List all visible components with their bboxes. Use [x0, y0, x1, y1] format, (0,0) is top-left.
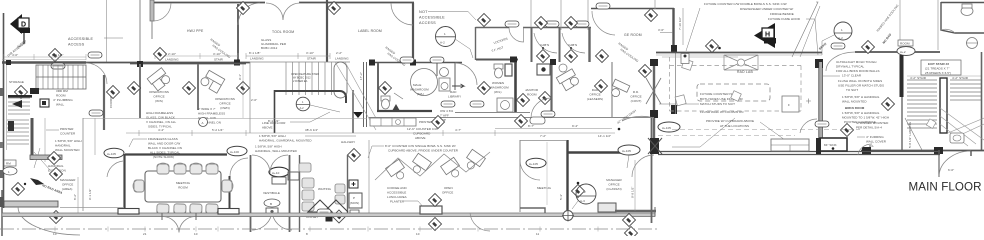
- bench counter on south wall: [771, 139, 809, 151]
- wall: cab row top: [476, 27, 510, 29]
- svg-text:ACCESS: ACCESS: [419, 21, 436, 25]
- svg-text:1 5/8"W, 5/8" H HANDRAIL: 1 5/8"W, 5/8" H HANDRAIL: [842, 95, 880, 99]
- diamond cab bottom2: [564, 49, 577, 62]
- door arc: cab2: [534, 33, 557, 53]
- room tag sw: [3, 160, 17, 175]
- section circle A-2 right: [834, 22, 852, 40]
- svg-text:LUNCH AREA: LUNCH AREA: [387, 195, 407, 199]
- wall: rad offices divider x612: [611, 62, 613, 118]
- tick t6: [309, 227, 311, 232]
- leader diagonal rad wing: [672, 118, 735, 147]
- svg-text:WALL COVER: WALL COVER: [866, 140, 887, 144]
- closet pill: [317, 209, 331, 215]
- svg-text:HANDRAIL, WALL MOUNTED: HANDRAIL, WALL MOUNTED: [255, 149, 298, 153]
- svg-text:(21 TREADS X 7": (21 TREADS X 7": [925, 67, 949, 71]
- wall: cab divider 3 / GE west: [588, 27, 590, 62]
- leader furring: [857, 136, 865, 138]
- diamond closet: [332, 210, 345, 223]
- diamond rd office: [638, 64, 651, 77]
- diamond cab2: [564, 16, 577, 29]
- svg-text:OFFICE: OFFICE: [62, 183, 73, 187]
- diamond leasers: [594, 79, 607, 92]
- svg-text:1: 1: [841, 28, 843, 32]
- svg-text:4'-7": 4'-7": [455, 128, 461, 132]
- leader frameless: [129, 139, 147, 147]
- dim line tool room: [246, 55, 330, 57]
- small tilted box furniture 1: [682, 59, 693, 70]
- door arc south open office: [470, 213, 490, 231]
- svg-text:A-2: A-2: [440, 41, 445, 45]
- leader from A-2 circle: [455, 39, 473, 58]
- svg-text:9'-9 1/2": 9'-9 1/2": [631, 187, 635, 198]
- door arc corridor top: [86, 63, 107, 84]
- wall: rad lab north inner: [656, 54, 822, 56]
- door arc meeting east: [230, 158, 248, 176]
- open office desk4: [462, 149, 485, 173]
- svg-text:(M/L): (M/L): [417, 92, 424, 96]
- wall: x95 vertical thin: [94, 118, 96, 155]
- black sq ops top: [137, 61, 143, 67]
- svg-text:4'-0": 4'-0": [12, 53, 18, 57]
- svg-text:D: D: [21, 22, 26, 29]
- vestibule box dot: [271, 210, 274, 213]
- door arc tool room west: [238, 3, 260, 25]
- door arc junction sw: [632, 155, 654, 177]
- tick t11: [597, 227, 599, 232]
- svg-text:STORAGE: STORAGE: [9, 80, 24, 84]
- washroom top line: [941, 2, 984, 4]
- diamond top right of hwd: [236, 1, 249, 14]
- stair upper rail: [36, 76, 86, 78]
- dim vertical x635: [634, 160, 636, 211]
- wall: west stair lower treads: [7, 120, 29, 144]
- open office west boundary: [368, 140, 370, 213]
- svg-text:8: 8: [306, 232, 308, 236]
- svg-text:TO SUIT: TO SUIT: [846, 88, 858, 92]
- svg-text:ROOM: ROOM: [527, 93, 537, 97]
- svg-text:GLASS, C/W BLACK: GLASS, C/W BLACK: [146, 116, 175, 120]
- equipment box column: plus box: [349, 180, 358, 188]
- dim strip hwd pipe: [155, 52, 238, 62]
- washroom door arc: [941, 29, 955, 33]
- room below stair: west wall: [274, 90, 276, 133]
- diamond corridor: [106, 85, 119, 98]
- svg-text:FUTURE FUME HOOD: FUTURE FUME HOOD: [768, 17, 801, 21]
- door arc janitor: [531, 98, 551, 118]
- svg-text:5'-2 1/4": 5'-2 1/4": [212, 128, 223, 132]
- svg-text:OFFICE: OFFICE: [442, 191, 453, 195]
- svg-text:WALL MOUNTED: WALL MOUNTED: [842, 100, 867, 104]
- flag marker D: box: [18, 18, 29, 28]
- diamond right of A-2: [477, 13, 490, 26]
- svg-text:10: 10: [416, 232, 420, 236]
- corridor south wall y112 segment1: [455, 112, 530, 114]
- male wr turning circle: [411, 69, 438, 96]
- leader line of floor: [290, 112, 330, 122]
- svg-text:OFFICE: OFFICE: [630, 95, 641, 99]
- svg-text:V CHANNEL, ON ALL: V CHANNEL, ON ALL: [146, 120, 176, 124]
- diamond sw2: [49, 167, 62, 180]
- svg-text:ACCESSIBLE: ACCESSIBLE: [387, 191, 406, 195]
- rad wing south wall band: [658, 151, 940, 153]
- svg-text:(MON): (MON): [350, 201, 359, 205]
- door leaf: hwd pipe: [151, 21, 153, 39]
- hallway north thin line: [83, 118, 367, 120]
- svg-text:(OWN): (OWN): [220, 106, 230, 110]
- printer counter north: counter rect: [370, 118, 416, 126]
- sink top right: [966, 38, 978, 49]
- chair top1: [157, 163, 169, 174]
- wall: stair west dark bar: [900, 55, 904, 97]
- marker circle in counter: [441, 83, 448, 90]
- dark blob manager: [30, 178, 44, 185]
- wall: west exterior: [3, 13, 5, 208]
- diamond y122 east: [514, 114, 527, 127]
- pill A-10 hall: [269, 167, 289, 177]
- west exterior wall bottom left: [1, 190, 3, 236]
- dim tick2: [191, 130, 193, 136]
- column line above GE: [654, 0, 656, 9]
- svg-text:A-3: A-3: [580, 199, 585, 203]
- small tilted box furniture 2: [675, 95, 686, 106]
- black block on stair south wall left: [862, 147, 871, 154]
- flag D stem: [23, 33, 25, 44]
- pill corridor: [89, 110, 103, 116]
- dashed line upper y129: [672, 129, 860, 131]
- svg-text:4" FURRING: 4" FURRING: [866, 135, 884, 139]
- leader from 2/A-3 to column: [572, 201, 578, 209]
- wall: north exterior left wing: [152, 2, 265, 4]
- wall: north exterior right of double door: [299, 2, 414, 4]
- junction black blocks: [650, 138, 659, 154]
- svg-text:USE FILLER OR MATCH STUDS: USE FILLER OR MATCH STUDS: [838, 84, 884, 88]
- svg-text:(NOTE SHOW): (NOTE SHOW): [153, 155, 174, 159]
- svg-text:AT THE LOCATIONS: AT THE LOCATIONS: [720, 124, 749, 128]
- leader into GE room: [686, 8, 700, 51]
- door arc: GE room entry: [592, 11, 615, 35]
- diamond male wr: [378, 81, 391, 94]
- svg-text:JANITOR: JANITOR: [525, 88, 539, 92]
- door arc rad wing: [800, 119, 817, 133]
- flag marker D: black triangle: [10, 14, 22, 34]
- black dots cab floor: [542, 47, 544, 49]
- svg-text:DISHWASHER UNDER COUNTER W/: DISHWASHER UNDER COUNTER W/: [740, 7, 793, 11]
- leader from accessible: [104, 37, 123, 39]
- leader 8-0: [368, 146, 384, 158]
- wall: vestibule west: [250, 155, 252, 232]
- diamond GE: [644, 8, 657, 21]
- pill cab2: [545, 21, 559, 27]
- svg-text:ACCESSIBLE: ACCESSIBLE: [419, 16, 445, 20]
- wall: meeting room north: [125, 153, 227, 155]
- women wr grab wall: [505, 64, 512, 76]
- wall: women/janitor dark: [514, 62, 517, 113]
- svg-text:BCBC 2012: BCBC 2012: [261, 46, 278, 50]
- black box inner: [42, 101, 46, 105]
- svg-text:(W/L): (W/L): [494, 90, 502, 94]
- diamond below manager 2: [624, 226, 637, 239]
- dim vertical right of ops: [242, 64, 244, 118]
- svg-text:1 5/8"W, 5/8" HIGH: 1 5/8"W, 5/8" HIGH: [259, 134, 286, 138]
- chair circle leasers: [559, 64, 567, 72]
- wall: GE room north: [591, 8, 674, 10]
- leader diagonals west: [34, 148, 50, 170]
- svg-text:1 5/8"W, 5/8" H HANDRAIL: 1 5/8"W, 5/8" H HANDRAIL: [842, 111, 880, 115]
- dark marks lower stair: [8, 121, 14, 131]
- wall: male wr west: [377, 63, 379, 112]
- wall: meeting room west: [123, 154, 125, 212]
- svg-text:H: H: [765, 32, 770, 39]
- svg-text:LANDING: LANDING: [165, 58, 179, 62]
- wall: hwd pipe room right: [237, 4, 239, 62]
- diamond counter: [431, 115, 444, 128]
- svg-text:3'-10": 3'-10": [306, 51, 314, 55]
- svg-text:8'-1 1/8": 8'-1 1/8": [249, 51, 260, 55]
- wall: corridor y63 segment washrooms: [369, 62, 462, 64]
- svg-text:COUNTER: COUNTER: [60, 132, 76, 136]
- tick t2: [107, 227, 109, 232]
- black dot hallway: [618, 128, 621, 131]
- svg-text:(CLASS/N): (CLASS/N): [606, 187, 621, 191]
- pill A-105 meeting2: [526, 158, 546, 168]
- dim ticks top storage: [2, 59, 86, 61]
- svg-text:A+10: A+10: [272, 171, 280, 175]
- black block on wall top brkn: [815, 59, 823, 68]
- svg-text:HANDRAIL, GUARDRAIL, MOUNTED: HANDRAIL, GUARDRAIL, MOUNTED: [259, 139, 312, 143]
- svg-text:A+100: A+100: [230, 150, 239, 154]
- dim line y133 long: [126, 132, 615, 134]
- open office desk cluster: desk1: [386, 159, 409, 183]
- column line: x588: [587, 0, 589, 30]
- wall step right of meeting2: [598, 203, 616, 212]
- black column blocks on corridor wall: [234, 60, 416, 66]
- svg-text:11: 11: [536, 232, 539, 236]
- corridor south wall y117 segment: [369, 117, 654, 119]
- open office desk2: [408, 153, 431, 177]
- pill janitor bottom: [541, 111, 555, 117]
- wall: thin vertical x140: [139, 0, 141, 62]
- column line: x561: [560, 0, 562, 30]
- svg-text:HIGH FRAMELESS: HIGH FRAMELESS: [198, 112, 225, 116]
- wall: male wr south dark: [377, 110, 432, 112]
- svg-text:1 5/8"W, 5/8" HIGH: 1 5/8"W, 5/8" HIGH: [255, 145, 282, 149]
- svg-text:9'-1 1/2": 9'-1 1/2": [88, 189, 92, 200]
- leader: fume hood: [806, 19, 818, 55]
- dim: vertical 7'-10: [682, 8, 684, 45]
- washroom top right: walls: [941, 2, 984, 33]
- svg-text:14'-1 1/2": 14'-1 1/2": [598, 134, 611, 138]
- wall: x83 vertical: [82, 118, 84, 211]
- diamond storage: [14, 85, 27, 98]
- flag D subbox: [20, 28, 30, 33]
- svg-text:3'-6": 3'-6": [658, 28, 664, 32]
- toilet top right: [961, 4, 973, 16]
- door arc manager west: [107, 161, 123, 177]
- black block x654 top: [650, 59, 658, 66]
- svg-text:HALLWAY: HALLWAY: [341, 140, 355, 144]
- door arc: cab1: [509, 28, 524, 43]
- exit stair label box: [921, 60, 961, 75]
- wall: meeting room east: [229, 176, 231, 210]
- svg-text:RAD: RAD: [450, 90, 457, 94]
- open office zigzag partition: [375, 152, 490, 180]
- svg-text:CAB'N: CAB'N: [540, 43, 549, 47]
- svg-text:OPERATIONS: OPERATIONS: [149, 90, 169, 94]
- diamond hallway: [347, 148, 360, 161]
- wall: cab divider 2: [559, 27, 561, 62]
- manager south tick: [654, 207, 656, 216]
- section circle 2/A-3: [576, 184, 596, 204]
- wall: x654 spine: [653, 60, 655, 140]
- svg-text:LANDING: LANDING: [250, 57, 264, 61]
- women wr toilet: [494, 64, 503, 78]
- vestibule double door top: [252, 155, 288, 173]
- diamond janitor1: [516, 93, 529, 106]
- sidewalk line west: [60, 207, 124, 209]
- janitor sink box: [537, 64, 550, 75]
- svg-text:6'-0": 6'-0": [948, 168, 954, 172]
- meeting2 west wall: [519, 140, 521, 212]
- svg-text:CAB'N: CAB'N: [568, 43, 577, 47]
- tick t3: [144, 227, 146, 232]
- dim vertical x45: [44, 118, 46, 162]
- svg-text:NOT: NOT: [419, 10, 428, 14]
- diamond left of stair: [861, 40, 874, 53]
- wall: x32 vertical dark: [31, 118, 34, 160]
- meeting2 south jog: [520, 208, 545, 213]
- svg-text:WALL MOUNTED: WALL MOUNTED: [55, 148, 80, 152]
- svg-text:COFFEE AND: COFFEE AND: [387, 186, 407, 190]
- leader from A-2 right: [822, 35, 834, 55]
- wall: manager south: [615, 210, 656, 213]
- dim line y128 east: [495, 128, 612, 130]
- svg-text:8'-0" COUNTER C/W SINGLE BOWL: 8'-0" COUNTER C/W SINGLE BOWL S.S. SINK …: [385, 144, 456, 148]
- wall: x353 vertical: [352, 90, 354, 133]
- section circle A-2: [436, 27, 456, 47]
- svg-text:MATCH STUDS TO SUIT: MATCH STUDS TO SUIT: [700, 102, 735, 106]
- dim vertical x78: [77, 177, 79, 213]
- svg-text:WALL AND DOOR C/W: WALL AND DOOR C/W: [148, 142, 180, 146]
- svg-text:A-2: A-2: [838, 36, 843, 40]
- chair bottom4: [206, 204, 218, 215]
- wall: tool/label separator: [326, 0, 328, 62]
- stair treads right flight: [950, 80, 981, 100]
- tick t8: [419, 227, 421, 232]
- svg-text:2'-2": 2'-2": [336, 51, 342, 55]
- diamond below manager: [622, 213, 635, 226]
- svg-text:MAIN FLOOR: MAIN FLOOR: [909, 181, 982, 194]
- waiting chairs right col: [299, 163, 345, 204]
- sink circle male wr: [440, 68, 449, 77]
- black block x654 mid: [650, 110, 658, 118]
- svg-text:ABOVE: ABOVE: [262, 126, 273, 130]
- stair lower dark bar: [8, 95, 32, 98]
- ops2 desk rotated: [199, 69, 224, 93]
- wall: north wall east segment: [855, 51, 940, 53]
- wall: brkn west (hatched): [819, 62, 822, 152]
- wall: cab divider 1: [531, 27, 533, 62]
- wall: corridor west x104: [103, 75, 105, 130]
- black block left of sink: [816, 138, 821, 154]
- black dot cab2 floor: [570, 47, 572, 49]
- sink circles in counter: [396, 120, 401, 125]
- svg-text:A+105: A+105: [662, 126, 671, 130]
- svg-text:P: P: [353, 196, 355, 200]
- svg-text:84" SINK: 84" SINK: [824, 143, 837, 147]
- svg-text:WASHROOM: WASHROOM: [490, 86, 509, 90]
- stair arrow black: [12, 100, 22, 108]
- svg-text:2 RISER EA.: 2 RISER EA.: [293, 79, 308, 83]
- svg-text:3RD RM: 3RD RM: [56, 89, 68, 93]
- diamond on wall x327: [327, 1, 340, 14]
- diamond cab bottom3: [595, 49, 608, 62]
- black arrow marker: [353, 112, 363, 118]
- tick t9: [477, 227, 479, 232]
- svg-text:MOUNTED TO 1 5/8"W, 42" HIGH: MOUNTED TO 1 5/8"W, 42" HIGH: [842, 116, 889, 120]
- stair landing box: [36, 65, 86, 89]
- pill top right cab: [596, 3, 610, 9]
- wall: x437 vertical between: [436, 63, 438, 76]
- svg-text:MANAGER: MANAGER: [606, 178, 622, 182]
- tick t10: [539, 227, 541, 232]
- leader: wall arrow: [822, 75, 840, 77]
- wall: x455 vertical: [454, 63, 456, 90]
- pill near corridor top: [88, 52, 102, 58]
- wall: hwd pipe room left: [150, 0, 154, 21]
- wall: below stair vertical: [938, 150, 940, 177]
- chair bottom1: [157, 204, 169, 215]
- svg-text:ROOM: ROOM: [900, 42, 910, 46]
- svg-text:(CONT): (CONT): [631, 99, 642, 103]
- diagonal rail line: [905, 118, 922, 150]
- svg-text:4'-2" STAIR: 4'-2" STAIR: [952, 76, 969, 80]
- svg-text:1: 1: [8, 170, 10, 174]
- light extension line x547: [546, 142, 548, 205]
- svg-text:OPEN FEATURE STAIR: OPEN FEATURE STAIR: [291, 72, 319, 76]
- diamond rad lab: [705, 39, 718, 52]
- svg-text:LINE OF FLOOR: LINE OF FLOOR: [262, 121, 286, 125]
- stair diagonal hatch lower right: [940, 108, 984, 146]
- wall: waiting west: [299, 155, 301, 232]
- svg-text:(LEASERS): (LEASERS): [587, 97, 603, 101]
- svg-text:(AREA): (AREA): [62, 187, 72, 191]
- svg-text:HWJ PPE: HWJ PPE: [187, 29, 204, 33]
- pill male wr top2: [430, 57, 444, 63]
- room tag box: [898, 40, 913, 46]
- chair top4: [206, 163, 218, 174]
- svg-text:GE ROOM: GE ROOM: [624, 33, 642, 37]
- door arc hallway ne: [622, 116, 654, 121]
- diamond cab bottom1: [536, 49, 549, 62]
- toilet male wr: [381, 96, 390, 109]
- stair dim line: [907, 75, 981, 77]
- closet triangles: [308, 200, 348, 212]
- svg-text:WALL: WALL: [56, 103, 65, 107]
- svg-text:R.D.: R.D.: [633, 90, 639, 94]
- svg-text:2'-10": 2'-10": [168, 52, 176, 56]
- rad wing dashed interior line: [658, 135, 795, 137]
- pill A-100 meeting: [227, 146, 247, 156]
- svg-text:B: B: [270, 202, 272, 206]
- svg-text:WASHROOM: WASHROOM: [410, 88, 429, 92]
- svg-text:OFFICE: OFFICE: [589, 93, 600, 97]
- door arc: brkn room top: [826, 52, 855, 71]
- south wall black corner meeting w: [118, 209, 139, 215]
- pill below2: [470, 101, 484, 107]
- column line x938: [937, 0, 939, 50]
- diamond planter below: [428, 217, 441, 230]
- diamond planter above: [428, 193, 441, 206]
